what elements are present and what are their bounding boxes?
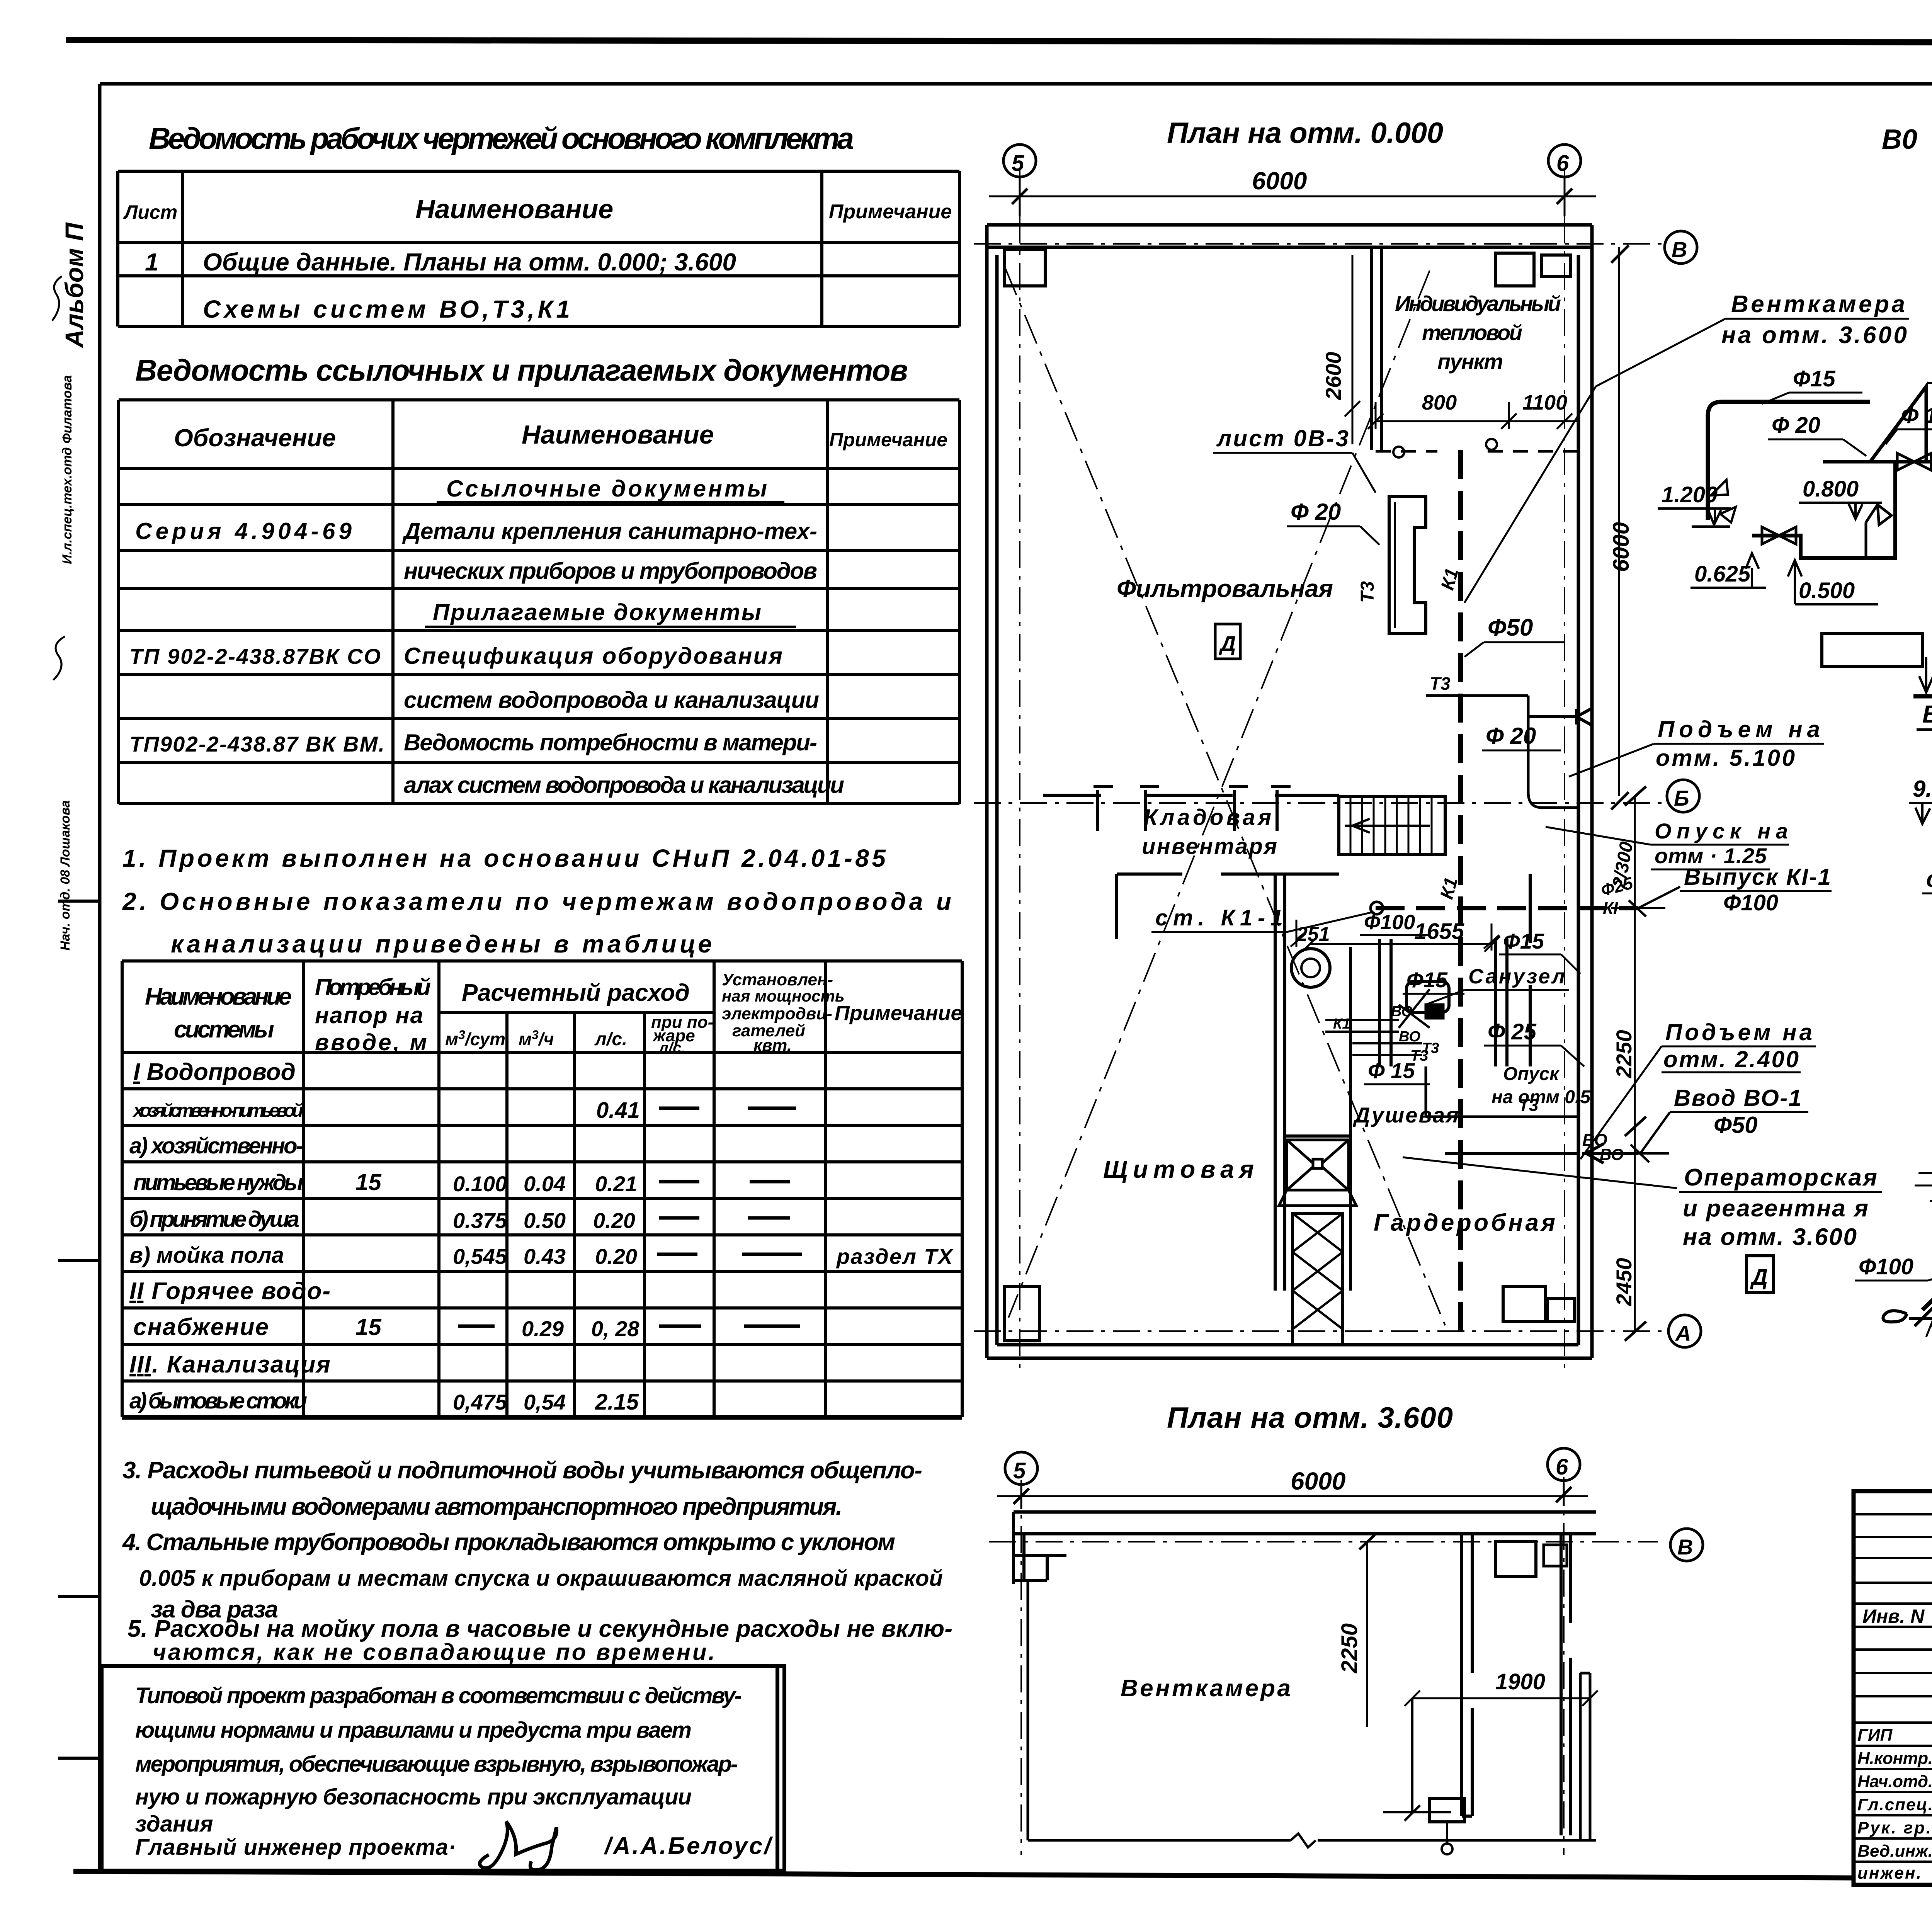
axis bubble A — [1668, 1315, 1701, 1347]
bottom wall with break (3.600) — [1028, 1833, 1596, 1847]
margin fold mark 3 — [58, 1595, 99, 1598]
svg-text:0.100: 0.100 — [453, 1172, 507, 1196]
svg-text:ТП902-2-438.87 ВК ВМ.: ТП902-2-438.87 ВК ВМ. — [129, 732, 384, 756]
ITP partition vertical wall — [1372, 249, 1381, 450]
svg-text:Ф 15: Ф 15 — [1901, 403, 1932, 428]
K1 dashed pipe horizontal — [1376, 906, 1638, 910]
svg-text:2.15: 2.15 — [595, 1389, 639, 1415]
svg-text:5: 5 — [1012, 151, 1024, 176]
svg-text:отм. 5.100: отм. 5.100 — [1656, 745, 1795, 771]
svg-text:Вед.инж.: Вед.инж. — [1857, 1842, 1932, 1861]
svg-text:0.800: 0.800 — [1803, 476, 1859, 502]
svg-text:мероприятия, обеспечивающие: мероприятия, обеспечивающие взрывную, вз… — [135, 1752, 738, 1777]
svg-text:Ф100: Ф100 — [1364, 911, 1415, 934]
svg-text:на отм. 3.600: на отм. 3.600 — [1721, 322, 1907, 349]
svg-text:1100: 1100 — [1522, 391, 1567, 414]
svg-text:Ф 20: Ф 20 — [1486, 723, 1536, 749]
svg-text:Д: Д — [1750, 1265, 1768, 1290]
svg-text:напор на: напор на — [315, 1002, 423, 1028]
svg-text:6: 6 — [1556, 1454, 1568, 1480]
svg-text:0.20: 0.20 — [593, 1208, 635, 1233]
svg-text:пункт: пункт — [1437, 349, 1503, 374]
svg-text:Ведомость рабочих чертежей: Ведомость рабочих чертежей основного ком… — [149, 121, 854, 155]
svg-text:6000: 6000 — [1291, 1467, 1345, 1495]
svg-text:Обозначение: Обозначение — [174, 424, 336, 452]
svg-text:В0: В0 — [1882, 124, 1917, 155]
detail mark D (plan) — [1215, 624, 1240, 659]
svg-text:Венткамера: Венткамера — [1731, 291, 1905, 318]
svg-text:тепловой: тепловой — [1422, 320, 1522, 345]
svg-text:План на отм. 3.600: План на отм. 3.600 — [1167, 1401, 1453, 1434]
svg-text:Щитовая: Щитовая — [1103, 1155, 1254, 1183]
washbasin circle — [1291, 949, 1330, 987]
bench rows below ladder — [1296, 1344, 1339, 1346]
svg-text:Нач. отд. 08 Лошакова: Нач. отд. 08 Лошакова — [58, 800, 73, 951]
svg-text:Фильтровальная: Фильтровальная — [1117, 575, 1333, 602]
svg-text:а) бытовые стоки: а) бытовые стоки — [129, 1388, 307, 1413]
svg-text:системы: системы — [174, 1016, 274, 1043]
svg-text:Опуск: Опуск — [1503, 1064, 1560, 1084]
svg-text:Альбом П: Альбом П — [60, 222, 88, 349]
svg-text:Гл.спец.: Гл.спец. — [1857, 1795, 1932, 1814]
svg-text:Главный инженер проекта·: Главный инженер проекта· — [135, 1835, 456, 1860]
detail mark D (right) — [1747, 1256, 1774, 1293]
svg-text:Примечание: Примечание — [829, 201, 952, 223]
K1: left lower diagonal F100 — [1922, 1198, 1932, 1310]
svg-text:6: 6 — [1556, 151, 1569, 176]
VO: equipment box — [1822, 634, 1922, 667]
svg-text:Ведомость ссылочных и при: Ведомость ссылочных и прилагаемых докуме… — [135, 353, 908, 387]
svg-text:Ф 15: Ф 15 — [1368, 1058, 1415, 1083]
svg-text:Серия 4.904-69: Серия 4.904-69 — [135, 518, 352, 544]
leader to operator room — [1403, 1157, 1677, 1188]
svg-text:б) принятие душа: б) принятие душа — [129, 1207, 299, 1232]
VO: valve on horizontal — [1897, 453, 1931, 470]
svg-text:хозяйственно-питьевой: хозяйственно-питьевой — [132, 1100, 303, 1121]
standard project statement box — [102, 1666, 784, 1871]
svg-text:Ф 20: Ф 20 — [1772, 413, 1820, 438]
svg-text:Ф100: Ф100 — [1723, 890, 1778, 915]
svg-text:Типовой проект разработан: Типовой проект разработан в соответствии… — [135, 1683, 742, 1708]
svg-text:0.005 к приборам и местам: 0.005 к приборам и местам спуска и окраш… — [139, 1566, 943, 1591]
svg-text:9.600: 9.600 — [1913, 776, 1932, 802]
svg-text:Ссылочные документы: Ссылочные документы — [446, 476, 767, 502]
svg-text:вводе, м: вводе, м — [315, 1029, 427, 1055]
svg-text:Примечание: Примечание — [835, 1002, 963, 1025]
svg-text:Детали крепления санитарно-т: Детали крепления санитарно-тех- — [402, 518, 817, 544]
svg-text:1. Проект выполнен на ос: 1. Проект выполнен на основании СНиП 2.0… — [122, 844, 886, 872]
margin signature scribble 1 — [52, 276, 62, 321]
svg-text:КI: КI — [1603, 899, 1618, 918]
svg-text:2450: 2450 — [1612, 1258, 1636, 1306]
svg-text:питьевые нужды.: питьевые нужды. — [133, 1170, 307, 1195]
svg-text:Расчетный расход: Расчетный расход — [462, 980, 690, 1006]
shower tray with funnel — [1287, 1140, 1349, 1190]
svg-text:щадочными водомерами автотра: щадочными водомерами автотранспортного п… — [151, 1493, 842, 1520]
column block bottom-right — [1503, 1287, 1546, 1321]
svg-text:15: 15 — [355, 1314, 382, 1340]
svg-text:0, 28: 0, 28 — [591, 1316, 639, 1341]
svg-text:ющими нормами и правилами и: ющими нормами и правилами и предуста три… — [135, 1718, 692, 1743]
svg-text:Ф 20: Ф 20 — [1291, 499, 1341, 525]
svg-text:м3/сут.: м3/сут. — [445, 1028, 510, 1049]
axis bubble V (bottom) — [1670, 1529, 1703, 1561]
dim 6000 vertical right — [1618, 247, 1620, 796]
tick marks on dim column — [1625, 786, 1646, 1341]
svg-text:0.500: 0.500 — [1799, 578, 1855, 603]
svg-text:I Водопровод: I Водопровод — [133, 1059, 296, 1085]
top wall plan 3.600 — [1014, 1512, 1596, 1534]
svg-text:В: В — [1672, 237, 1687, 262]
tap symbol right of T3 pipe — [1528, 708, 1592, 725]
outer wall left — [987, 225, 997, 1358]
title block left grid horizontals — [1854, 1514, 1932, 1723]
toilet fixture — [1406, 981, 1449, 1012]
ladder hatch rectangle — [1293, 1213, 1343, 1345]
dimension 6000 (top) — [989, 177, 1596, 216]
svg-text:Опуск на: Опуск на — [1655, 819, 1788, 843]
outer wall top — [987, 225, 1592, 247]
sheet top edge — [66, 40, 1932, 43]
VO: inlet base line — [1913, 694, 1932, 699]
svg-text:2250: 2250 — [1612, 1030, 1636, 1078]
axis line B (dash-dot horizontal) — [974, 802, 1665, 804]
svg-text:0.20: 0.20 — [595, 1244, 637, 1269]
svg-text:А: А — [1675, 1321, 1691, 1345]
axis line 6 (dash-dot vertical) — [1564, 170, 1565, 1372]
small pipe web near shower — [1325, 1020, 1422, 1055]
svg-text:Д: Д — [1219, 631, 1236, 656]
outer wall right — [1578, 225, 1592, 1358]
svg-text:5. Расходы на мойку пола в: 5. Расходы на мойку пола в часовые и сек… — [128, 1616, 952, 1642]
svg-text:Ввод ВО-1: Ввод ВО-1 — [1674, 1085, 1801, 1111]
svg-text:Лист: Лист — [123, 201, 177, 223]
svg-text:Прилагаемые документы: Прилагаемые документы — [433, 599, 761, 625]
svg-text:лист 0В-3: лист 0В-3 — [1216, 425, 1349, 451]
svg-text:в) мойка пола: в) мойка пола — [129, 1243, 284, 1268]
svg-text:0.625: 0.625 — [1694, 561, 1751, 587]
svg-text:0.21: 0.21 — [595, 1172, 637, 1196]
K1 main dashed riser — [1458, 450, 1463, 1341]
svg-text:Ведомость потребности в мат: Ведомость потребности в матери- — [404, 730, 817, 755]
svg-text:л/с.: л/с. — [658, 1039, 685, 1056]
svg-text:на отм 0.5: на отм 0.5 — [1492, 1087, 1591, 1107]
svg-text:Ф50: Ф50 — [1488, 614, 1533, 641]
chief engineer signature — [480, 1821, 556, 1870]
dim 800 1100 — [1368, 402, 1578, 429]
svg-text:—0.897: —0.897 — [1918, 1159, 1932, 1184]
K1: end fitting — [1883, 1307, 1932, 1326]
margin fold mark 2 — [58, 1259, 99, 1262]
svg-text:Санузел: Санузел — [1468, 965, 1565, 988]
svg-text:6000: 6000 — [1252, 167, 1307, 195]
table 1 grid — [118, 171, 959, 327]
dim 2600 vertical — [1345, 255, 1360, 444]
T3 pipe to right wall — [1426, 696, 1528, 792]
svg-text:ТП 902-2-438.87ВК СО: ТП 902-2-438.87ВК СО — [129, 644, 381, 668]
svg-text:0,54: 0,54 — [524, 1390, 566, 1414]
VO: direction triangle — [1870, 386, 1926, 462]
column block top-left — [1005, 249, 1045, 286]
svg-text:Выпуск КI-1: Выпуск КI-1 — [1684, 864, 1831, 890]
svg-text:ГИП: ГИП — [1857, 1726, 1893, 1745]
svg-text:15: 15 — [355, 1169, 382, 1195]
axis line 5/6 (bottom plan) — [1020, 1480, 1022, 1855]
svg-text:К1: К1 — [1436, 875, 1462, 901]
svg-text:Подъем на: Подъем на — [1658, 716, 1820, 742]
axis line V (bottom plan) — [989, 1541, 1658, 1543]
axis bubble 6 (top) — [1548, 145, 1581, 177]
diagonal dash-dot cross line 1 — [1005, 267, 1445, 1325]
frame bottom line — [73, 1871, 1854, 1878]
svg-text:алах систем водопровода и: алах систем водопровода и канализации — [404, 772, 844, 798]
svg-text:Ф100: Ф100 — [1859, 1254, 1913, 1279]
svg-text:6000: 6000 — [1609, 522, 1634, 572]
VO: faucet pair at left riser bottom — [1711, 480, 1736, 522]
svg-text:4. Стальные трубопроводы п: 4. Стальные трубопроводы прокладываются … — [122, 1529, 895, 1556]
axis line A (dash-dot horizontal) — [974, 1330, 1667, 1332]
svg-text:/А.А.Белоус/: /А.А.Белоус/ — [604, 1833, 773, 1859]
svg-text:ст. К1-1: ст. К1-1 — [1155, 905, 1283, 930]
svg-text:Ф15: Ф15 — [1503, 929, 1544, 953]
frame left line — [98, 84, 102, 1872]
wall posts on B axis — [1094, 786, 1291, 831]
svg-text:Спецификация оборудования: Спецификация оборудования — [404, 643, 782, 669]
VO: left riser with elbow — [1708, 402, 1870, 520]
VO: step pipe with valve 0.625 — [1752, 462, 1895, 558]
VO: kran flag 0.800 — [1866, 505, 1891, 558]
column block top-right — [1495, 253, 1534, 286]
svg-text:здания: здания — [135, 1811, 213, 1837]
svg-text:1900: 1900 — [1495, 1669, 1545, 1694]
svg-text:2600: 2600 — [1321, 352, 1345, 400]
right shaft walls (3.600) — [1462, 1534, 1472, 1816]
left wall lower (3.600) — [1027, 1580, 1029, 1840]
svg-text:Наименование: Наименование — [145, 983, 292, 1010]
svg-text:Кладовая: Кладовая — [1144, 805, 1271, 830]
svg-text:3. Расходы питьевой и п: 3. Расходы питьевой и подпиточной воды у… — [122, 1457, 922, 1484]
axis bubble 5 (bottom) — [1005, 1452, 1037, 1485]
svg-text:ВО: ВО — [1600, 1145, 1624, 1163]
svg-text:Ф50: Ф50 — [1714, 1112, 1758, 1138]
svg-text:800: 800 — [1422, 391, 1457, 414]
svg-text:м3/ч: м3/ч — [519, 1028, 554, 1049]
VO: arrow into inlet — [1919, 657, 1932, 692]
outer wall bottom — [987, 1345, 1592, 1358]
right dim column line — [1634, 796, 1636, 1331]
axis line V (dash-dot horizontal) — [974, 243, 1662, 245]
svg-text:отм. 2.400: отм. 2.400 — [1663, 1046, 1799, 1072]
svg-text:раздел ТХ: раздел ТХ — [836, 1244, 954, 1269]
VO bottom pipe with arrow — [1445, 1144, 1638, 1163]
inner pipes near B axis right — [1528, 792, 1578, 808]
svg-text:II Горячее водо-: II Горячее водо- — [129, 1278, 330, 1304]
svg-text:1: 1 — [145, 248, 159, 276]
svg-text:Наименование: Наименование — [522, 420, 714, 449]
svg-text:ВО: ВО — [1399, 1029, 1420, 1045]
svg-text:квт.: квт. — [753, 1036, 792, 1055]
svg-text:Т3: Т3 — [1519, 1096, 1538, 1115]
ITP partition bottom dashed — [1376, 450, 1578, 453]
svg-text:Б: Б — [1674, 786, 1689, 810]
svg-text:Общие данные. Планы на отм: Общие данные. Планы на отм. 0.000; 3.600 — [203, 248, 736, 276]
dim 2250 (3.600) — [1366, 1542, 1368, 1727]
svg-text:Операторская: Операторская — [1684, 1164, 1877, 1191]
svg-text:ная мощность: ная мощность — [722, 987, 845, 1005]
svg-text:0.04: 0.04 — [524, 1172, 566, 1196]
svg-text:л/с.: л/с. — [594, 1029, 627, 1049]
svg-text:Установлен-: Установлен- — [722, 970, 833, 989]
svg-text:Н.контр.: Н.контр. — [1857, 1749, 1932, 1768]
axis bubble 6 (bottom) — [1548, 1448, 1580, 1481]
diagonal dash-dot cross line 2 — [1009, 270, 1430, 1318]
svg-text:инвентаря: инвентаря — [1142, 834, 1277, 859]
svg-text:Нач.отд.: Нач.отд. — [1857, 1772, 1932, 1791]
axis bubble V — [1665, 231, 1697, 264]
svg-text:чаются, как не совпадающие п: чаются, как не совпадающие по времени. — [153, 1639, 715, 1665]
svg-text:251: 251 — [1296, 923, 1330, 946]
shower room block walls — [1275, 874, 1339, 1291]
svg-text:Ф15: Ф15 — [1406, 968, 1448, 992]
svg-text:Ф 25: Ф 25 — [1488, 1019, 1537, 1044]
axis bubble B — [1667, 780, 1699, 812]
svg-text:снабжение: снабжение — [133, 1314, 269, 1340]
svg-text:В: В — [1677, 1535, 1693, 1559]
VO: horizontal with valve — [1823, 460, 1932, 464]
svg-text:систем водопровода и канали: систем водопровода и канализации — [404, 687, 819, 713]
svg-text:5: 5 — [1013, 1458, 1026, 1483]
svg-text:и реагентна я: и реагентна я — [1683, 1195, 1868, 1222]
svg-text:ную и пожарную безопасность: ную и пожарную безопасность при эксплуат… — [135, 1784, 692, 1810]
svg-text:Т3: Т3 — [1357, 581, 1378, 603]
svg-text:Ф25: Ф25 — [1599, 874, 1635, 900]
svg-text:Душевая: Душевая — [1353, 1103, 1459, 1127]
left column block (3.600) — [1014, 1512, 1066, 1584]
svg-text:Ввод В0-1: Ввод В0-1 — [1922, 700, 1932, 728]
axis bubble 5 (top) — [1003, 145, 1036, 177]
frame top line — [100, 82, 1932, 86]
svg-text:0.41: 0.41 — [596, 1098, 640, 1123]
svg-text:1655: 1655 — [1414, 919, 1464, 944]
svg-text:ВО: ВО — [1391, 1003, 1413, 1020]
margin fold mark 4 — [58, 1757, 99, 1760]
svg-text:Подъем на: Подъем на — [1665, 1019, 1812, 1045]
svg-text:Ф15: Ф15 — [1793, 366, 1836, 391]
svg-text:0.375: 0.375 — [453, 1208, 507, 1233]
svg-text:1.200: 1.200 — [1662, 482, 1718, 507]
svg-text:0.43: 0.43 — [524, 1244, 566, 1269]
T3 bottom pipe — [1426, 1066, 1578, 1117]
svg-text:электродви-: электродви- — [722, 1004, 832, 1023]
pipe dots at ITP — [1393, 447, 1404, 457]
heat duct profile — [1389, 497, 1426, 634]
svg-text:К1: К1 — [1333, 1016, 1350, 1032]
dim 1900 (3.600) — [1405, 1690, 1598, 1706]
svg-text:Потребный: Потребный — [315, 974, 431, 1000]
kladovaya walls — [1117, 874, 1339, 939]
svg-text:План на отм. 0.000: План на отм. 0.000 — [1167, 117, 1443, 150]
table 2 grid — [119, 400, 959, 804]
dimension 6000 (bottom) — [997, 1483, 1588, 1509]
column top right (3.600) — [1495, 1542, 1536, 1577]
svg-text:0.29: 0.29 — [522, 1316, 564, 1341]
svg-text:Примечание: Примечание — [829, 429, 947, 451]
svg-text:0.50: 0.50 — [524, 1208, 566, 1233]
svg-text:2250: 2250 — [1337, 1623, 1362, 1673]
svg-text:III. Канализация: III. Канализация — [129, 1351, 330, 1378]
svg-text:Рук. гр.: Рук. гр. — [1857, 1818, 1931, 1837]
column block bottom-left — [1005, 1287, 1039, 1341]
stairs — [1339, 797, 1445, 855]
svg-text:Т3: Т3 — [1430, 673, 1451, 694]
svg-text:канализации приведены в таб: канализации приведены в таблице — [171, 930, 712, 958]
title block outer frame — [1854, 1491, 1932, 1885]
svg-text:Наименование: Наименование — [415, 194, 613, 224]
svg-text:инжен.: инжен. — [1857, 1864, 1921, 1883]
svg-text:Т3: Т3 — [1410, 1047, 1429, 1064]
hoist fixture (3.600) — [1383, 1698, 1451, 1821]
svg-text:2. Основные показатели по: 2. Основные показатели по чертежам водоп… — [122, 888, 951, 915]
big table grid — [122, 961, 962, 1417]
axis line 5 (dash-dot vertical) — [1019, 170, 1020, 1372]
svg-text:нических приборов и трубопро: нических приборов и трубопроводов — [404, 558, 817, 584]
svg-text:Гардеробная: Гардеробная — [1374, 1209, 1555, 1236]
svg-text:0,475: 0,475 — [453, 1390, 507, 1414]
svg-text:Схемы систем ВО,Т3,К1: Схемы систем ВО,Т3,К1 — [203, 295, 570, 323]
svg-text:0,545: 0,545 — [453, 1244, 507, 1269]
svg-text:а) хозяйственно-: а) хозяйственно- — [129, 1133, 303, 1158]
title block signature rows — [1854, 1746, 1932, 1862]
svg-text:на отм. 3.600: на отм. 3.600 — [1683, 1224, 1857, 1250]
svg-text:И.л.спец.тех.отд Филатова: И.л.спец.тех.отд Филатова — [60, 375, 75, 564]
svg-text:Инв. N: Инв. N — [1862, 1605, 1925, 1627]
svg-text:Венткамера: Венткамера — [1121, 1675, 1291, 1702]
margin fold mark 1 — [58, 900, 99, 903]
margin signature scribble 2 — [53, 636, 65, 680]
svg-text:ст. К1- 1: ст. К1- 1 — [1926, 866, 1932, 892]
